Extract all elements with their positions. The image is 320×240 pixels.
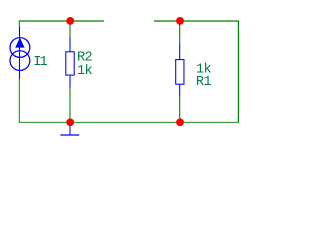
wire: top-right segment	[154, 20, 239, 22]
wire: top-left segment	[19, 20, 104, 22]
current source I1	[10, 27, 30, 79]
node dot top-left	[66, 17, 74, 25]
wire: bottom rail	[19, 121, 239, 123]
node dot bottom-right	[176, 118, 184, 126]
wire: left vertical rail	[18, 21, 20, 123]
wire: stub from top node to R1	[179, 21, 181, 44]
node dot top-right	[176, 17, 184, 25]
resistor R1	[176, 44, 184, 96]
wire: R2 bottom to bottom node	[69, 88, 71, 122]
wire: stub from top node to R2	[69, 21, 71, 37]
ground	[60, 124, 79, 135]
svg-text:R1: R1	[196, 75, 212, 90]
resistor R2	[66, 37, 74, 89]
white mask under I1 symbol (hide rail behind component)	[18, 28, 22, 79]
wire: right vertical rail	[237, 21, 239, 123]
svg-text:1k: 1k	[77, 64, 93, 79]
node dot bottom-left	[66, 118, 74, 126]
svg-text:I1: I1	[33, 55, 47, 70]
wire: R1 bottom to bottom node	[179, 96, 181, 123]
